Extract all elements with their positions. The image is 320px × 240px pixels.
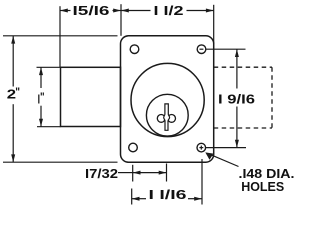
svg-text:": " [15,85,20,99]
svg-text:I5/I6: I5/I6 [73,3,110,18]
svg-text:I I/I6: I I/I6 [149,187,187,202]
svg-text:I7/32: I7/32 [85,166,118,181]
svg-text:I I/2: I I/2 [154,3,184,18]
svg-text:HOLES: HOLES [241,179,284,194]
svg-text:I 9/I6: I 9/I6 [218,91,255,106]
svg-text:": " [40,90,45,104]
